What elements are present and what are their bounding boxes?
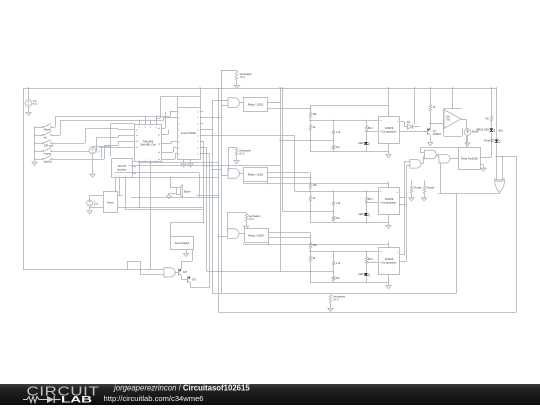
svg-text:741: 741 xyxy=(446,119,451,122)
svg-text:a1: a1 xyxy=(136,129,138,131)
svg-text:2N3904: 2N3904 xyxy=(433,134,442,136)
svg-text:o: o xyxy=(397,252,398,254)
svg-text:strong: strong xyxy=(44,151,52,155)
svg-text:s: s xyxy=(119,175,120,177)
svg-text:LAB: LAB xyxy=(61,394,92,405)
svg-text:71k: 71k xyxy=(336,216,341,220)
svg-text:a: a xyxy=(179,129,180,131)
svg-text:DIP sw1: DIP sw1 xyxy=(44,143,54,147)
svg-text:b: b xyxy=(198,147,199,149)
svg-text:in: in xyxy=(380,262,381,264)
svg-text:Relay / LED4: Relay / LED4 xyxy=(248,234,264,238)
svg-text:Comparator: Comparator xyxy=(382,200,397,204)
svg-text:MR16 LED: MR16 LED xyxy=(476,127,489,131)
svg-text:Relay Fwd/LED: Relay Fwd/LED xyxy=(461,158,478,161)
svg-text:BJT: BJT xyxy=(183,272,188,274)
svg-text:o: o xyxy=(397,192,398,194)
svg-text:tilt: tilt xyxy=(44,135,47,139)
svg-text:in: in xyxy=(380,120,381,122)
svg-text:b: b xyxy=(198,117,199,119)
svg-text:b: b xyxy=(150,126,151,128)
svg-text:Servo: Servo xyxy=(107,200,114,204)
svg-text:q1: q1 xyxy=(158,134,160,136)
svg-text:Level Shifter: Level Shifter xyxy=(181,131,197,135)
svg-text:b: b xyxy=(145,126,146,128)
svg-text:Relay / LED1: Relay / LED1 xyxy=(248,102,264,106)
svg-text:Vechas: Vechas xyxy=(414,188,422,190)
svg-text:q1: q1 xyxy=(158,143,160,145)
svg-text:RedLED: RedLED xyxy=(484,139,494,143)
svg-text:Buzer: Buzer xyxy=(184,189,191,193)
svg-text:5 V: 5 V xyxy=(33,102,37,106)
svg-text:a: a xyxy=(179,147,180,149)
svg-text:tactSw: tactSw xyxy=(44,159,52,163)
svg-text:LED1: LED1 xyxy=(358,272,365,276)
svg-text:86.1: 86.1 xyxy=(368,257,374,261)
svg-text:b: b xyxy=(198,135,199,137)
svg-text:q1: q1 xyxy=(158,152,160,154)
svg-text:86.1: 86.1 xyxy=(368,197,374,201)
svg-text:10k: 10k xyxy=(313,243,318,247)
svg-text:a: a xyxy=(179,117,180,119)
svg-text:b: b xyxy=(156,126,157,128)
svg-text:jorgeaperezrincon / Circuitaso: jorgeaperezrincon / Circuitasof102615 xyxy=(113,384,250,393)
svg-text:BJT: BJT xyxy=(192,280,197,282)
svg-text:Reed1: Reed1 xyxy=(44,127,52,131)
svg-text:Br.6: Br.6 xyxy=(499,130,504,133)
svg-text:b: b xyxy=(139,126,140,128)
svg-text:in: in xyxy=(380,251,381,253)
svg-text:o: o xyxy=(397,121,398,123)
svg-text:a: a xyxy=(179,135,180,137)
svg-text:5 V: 5 V xyxy=(94,202,98,206)
svg-text:71k: 71k xyxy=(336,145,341,149)
svg-text:a1: a1 xyxy=(136,135,138,137)
svg-text:a: a xyxy=(179,123,180,125)
svg-text:Relay / LED2: Relay / LED2 xyxy=(248,173,264,177)
svg-text:1.1k: 1.1k xyxy=(336,261,342,265)
svg-text:71k: 71k xyxy=(336,276,341,280)
svg-text:86.1: 86.1 xyxy=(368,126,374,130)
svg-text:b: b xyxy=(198,153,199,155)
svg-text:decoder: decoder xyxy=(117,167,127,171)
svg-text:a1: a1 xyxy=(136,147,138,149)
svg-text:b: b xyxy=(198,129,199,131)
svg-text:in: in xyxy=(380,202,381,204)
svg-text:a1: a1 xyxy=(136,141,138,143)
svg-text:1.1k: 1.1k xyxy=(336,130,342,134)
svg-text:b: b xyxy=(198,123,199,125)
svg-text:q1: q1 xyxy=(158,128,160,130)
svg-text:b: b xyxy=(198,111,199,113)
svg-text:D1: D1 xyxy=(407,120,411,124)
svg-text:LED1: LED1 xyxy=(358,141,365,145)
svg-text:in: in xyxy=(380,191,381,193)
svg-text:in: in xyxy=(380,131,381,133)
svg-text:http://circuitlab.com/c34wme6: http://circuitlab.com/c34wme6 xyxy=(104,394,204,403)
svg-text:Comparator: Comparator xyxy=(382,260,397,264)
svg-text:a: a xyxy=(179,141,180,143)
svg-text:Servo Digital: Servo Digital xyxy=(175,241,190,245)
svg-text:Comparator: Comparator xyxy=(382,129,397,133)
svg-text:Shift-Bit_Out: Shift-Bit_Out xyxy=(140,143,156,147)
svg-text:LED1: LED1 xyxy=(358,212,365,216)
svg-text:10k: 10k xyxy=(313,183,318,187)
svg-text:10k: 10k xyxy=(313,112,318,116)
svg-text:Vechas: Vechas xyxy=(427,188,435,190)
svg-text:+5 V: +5 V xyxy=(240,75,246,79)
svg-text:q1: q1 xyxy=(158,159,160,161)
svg-text:1.1k: 1.1k xyxy=(336,201,342,205)
svg-text:a: a xyxy=(179,153,180,155)
svg-text:+5 V: +5 V xyxy=(249,217,255,221)
svg-text:b: b xyxy=(198,141,199,143)
svg-text:+5 V: +5 V xyxy=(239,152,245,156)
svg-text:a: a xyxy=(179,111,180,113)
svg-text:+5 V: +5 V xyxy=(333,298,339,302)
